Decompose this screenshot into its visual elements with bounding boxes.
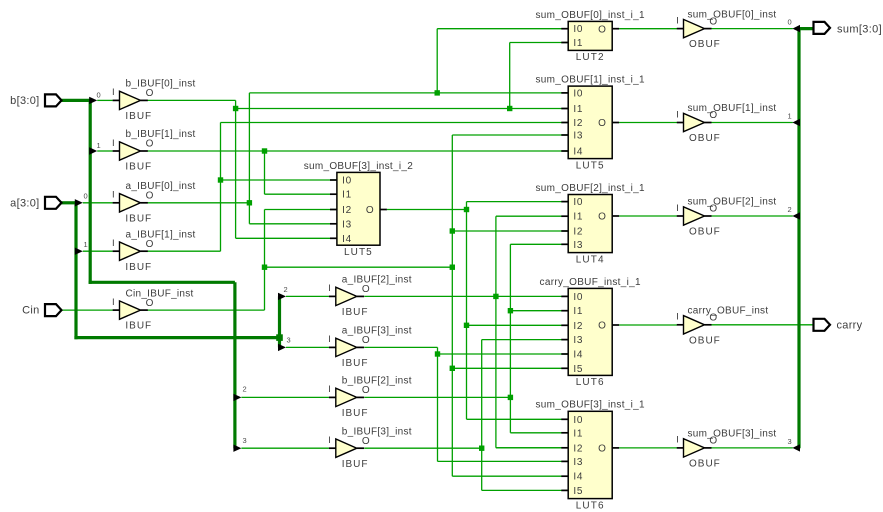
- svg-text:I: I: [676, 15, 679, 26]
- OBUF sum_OBUF[3]_inst: [676, 429, 776, 470]
- wire LUT5 output to sum_OBUF[1]: [619, 122, 677, 124]
- buffer sum_OBUF[1]_inst (OBUF): [677, 122, 684, 124]
- svg-text:2: 2: [284, 285, 288, 294]
- OBUF sum_OBUF[1]_inst: [676, 103, 776, 144]
- svg-text:3: 3: [243, 436, 247, 445]
- junction Cin at channel riser: [450, 265, 455, 270]
- svg-text:LUT6: LUT6: [576, 377, 605, 388]
- LUT sum_OBUF[3]_inst_i_2 (LUT5): [330, 179, 337, 181]
- svg-text:I3: I3: [573, 457, 583, 468]
- svg-text:I0: I0: [573, 197, 583, 208]
- svg-text:I0: I0: [573, 415, 583, 426]
- junction Cin at carry LUT I5 branch: [450, 366, 455, 371]
- svg-text:I0: I0: [342, 176, 352, 187]
- svg-text:a_IBUF[1]_inst: a_IBUF[1]_inst: [126, 229, 196, 240]
- svg-text:IBUF: IBUF: [125, 262, 152, 273]
- svg-text:I4: I4: [342, 234, 352, 245]
- LUT sum_OBUF[1]_inst_i_1 (LUT5): [561, 92, 568, 94]
- svg-text:I: I: [112, 238, 115, 249]
- buffer b_IBUF[0]_inst (IBUF): [113, 99, 120, 101]
- wire LUT2 output to sum_OBUF[0]: [619, 28, 677, 30]
- svg-text:I2: I2: [573, 118, 583, 129]
- svg-text:OBUF: OBUF: [689, 459, 721, 470]
- svg-text:O: O: [146, 139, 154, 150]
- svg-text:b[3:0]: b[3:0]: [10, 95, 39, 107]
- OBUF sum_OBUF[2]_inst: [676, 197, 776, 238]
- svg-text:I2: I2: [573, 443, 583, 454]
- svg-text:I: I: [112, 87, 115, 98]
- wire net Cin_IBUF output: [147, 135, 568, 476]
- svg-text:I1: I1: [573, 38, 583, 49]
- wire LUT4 output to sum_OBUF[2]: [619, 215, 677, 217]
- buffer b_IBUF[2]_inst (IBUF): [329, 396, 336, 398]
- input port Cin: [22, 304, 61, 317]
- wire net b_IBUF[1] output: [147, 151, 568, 194]
- buffer a_IBUF[0]_inst (IBUF): [113, 202, 120, 204]
- wire sum_OBUF[3] output to bus: [712, 447, 793, 449]
- svg-text:IBUF: IBUF: [125, 111, 152, 122]
- wire carry_OBUF output to carry port: [712, 324, 814, 326]
- wire a[3] to a_IBUF[3] input: [286, 346, 329, 348]
- svg-text:O: O: [366, 205, 374, 216]
- svg-text:I: I: [676, 312, 679, 323]
- bus tap a[2]: [278, 285, 288, 300]
- junction Cin at vertical riser: [262, 265, 267, 270]
- svg-text:OBUF: OBUF: [689, 133, 721, 144]
- wire net a_IBUF[0] output: [147, 29, 568, 224]
- junction a_IBUF[0] at LUT2 branch: [435, 90, 440, 95]
- wire a[1] to a_IBUF[1] input: [83, 250, 113, 252]
- wire net a_IBUF[1] output: [147, 123, 568, 252]
- junction a-bus split: [276, 334, 283, 341]
- buffer a_IBUF[2]_inst (IBUF): [329, 295, 336, 297]
- bus tap a[0]: [75, 191, 88, 206]
- svg-text:Cin_IBUF_inst: Cin_IBUF_inst: [126, 288, 194, 299]
- svg-text:LUT6: LUT6: [576, 500, 605, 511]
- svg-text:I2: I2: [573, 321, 583, 332]
- buffer a_IBUF[3]_inst (IBUF): [329, 346, 336, 348]
- wire net a_IBUF[2] output: [364, 216, 568, 448]
- svg-text:O: O: [146, 239, 154, 250]
- svg-text:I2: I2: [342, 205, 352, 216]
- svg-text:O: O: [146, 191, 154, 202]
- svg-text:I: I: [676, 203, 679, 214]
- svg-text:IBUF: IBUF: [342, 408, 369, 419]
- input port a[3:0]: [10, 197, 61, 210]
- svg-text:I0: I0: [573, 88, 583, 99]
- svg-text:I3: I3: [573, 131, 583, 142]
- svg-text:sum_OBUF[0]_inst_i_1: sum_OBUF[0]_inst_i_1: [536, 10, 646, 21]
- svg-text:b_IBUF[1]_inst: b_IBUF[1]_inst: [126, 129, 196, 140]
- wire b[0] to b_IBUF[0] input: [97, 99, 112, 101]
- svg-text:I: I: [328, 283, 331, 294]
- svg-text:carry_OBUF_inst: carry_OBUF_inst: [688, 306, 769, 317]
- junction a_IBUF[3] at carry LUT I4 branch: [435, 351, 440, 356]
- bus sum[3:0] trunk wire: [797, 29, 813, 449]
- wire sum_OBUF[0] output to bus: [712, 28, 793, 30]
- LUT sum_OBUF[3]_inst_i_1 (LUT6): [536, 400, 646, 512]
- LUT carry_OBUF_inst_i_1 (LUT6): [561, 295, 568, 297]
- wire net b_IBUF[3] output: [364, 340, 568, 491]
- IBUF b_IBUF[2]_inst: [328, 376, 412, 419]
- svg-text:I5: I5: [573, 486, 583, 497]
- svg-text:sum_OBUF[2]_inst: sum_OBUF[2]_inst: [688, 197, 777, 208]
- buffer sum_OBUF[2]_inst (OBUF): [677, 215, 684, 217]
- svg-text:I: I: [328, 384, 331, 395]
- svg-text:OBUF: OBUF: [689, 39, 721, 50]
- bus tap sum[3]: [788, 437, 800, 452]
- svg-text:I: I: [328, 435, 331, 446]
- svg-text:0: 0: [97, 91, 101, 100]
- junction b_IBUF[2] at riser: [508, 395, 513, 400]
- wire sum3 LUT output to sum_OBUF[3]: [619, 447, 677, 449]
- bus tap b[1]: [89, 141, 100, 155]
- svg-text:I1: I1: [342, 190, 352, 201]
- svg-text:O: O: [598, 24, 606, 35]
- buffer sum_OBUF[3]_inst (OBUF): [677, 447, 684, 449]
- svg-text:O: O: [146, 298, 154, 309]
- svg-text:a_IBUF[2]_inst: a_IBUF[2]_inst: [342, 275, 412, 286]
- wire b[2] to b_IBUF[2] input: [241, 396, 329, 398]
- input port b[3:0]: [10, 94, 61, 107]
- bus b[3:0] trunk wire: [61, 99, 235, 448]
- svg-text:O: O: [146, 88, 154, 99]
- output port carry: [814, 319, 863, 332]
- wire carry LUT output to carry_OBUF: [619, 324, 677, 326]
- wire net b_IBUF[0] output: [147, 43, 568, 239]
- svg-text:I1: I1: [573, 306, 583, 317]
- svg-text:carry: carry: [837, 320, 863, 332]
- LUT carry_OBUF_inst_i_1 (LUT6): [540, 277, 641, 388]
- svg-text:I: I: [112, 297, 115, 308]
- junction LUT5 mid output: [464, 207, 469, 212]
- buffer a_IBUF[1]_inst (IBUF): [113, 250, 120, 252]
- junction a_IBUF[2] at channel riser: [493, 294, 498, 299]
- svg-text:I5: I5: [573, 364, 583, 375]
- IBUF b_IBUF[1]_inst: [112, 129, 196, 172]
- IBUF a_IBUF[2]_inst: [328, 275, 412, 318]
- buffer carry_OBUF_inst (OBUF): [677, 324, 684, 326]
- svg-text:LUT4: LUT4: [576, 254, 605, 265]
- svg-text:O: O: [598, 212, 606, 223]
- svg-text:O: O: [598, 321, 606, 332]
- bus tap b[0]: [89, 91, 100, 105]
- buffer b_IBUF[1]_inst (IBUF): [113, 150, 120, 152]
- OBUF sum_OBUF[0]_inst: [676, 9, 776, 50]
- svg-text:sum_OBUF[1]_inst_i_1: sum_OBUF[1]_inst_i_1: [536, 75, 646, 86]
- svg-text:IBUF: IBUF: [125, 213, 152, 224]
- svg-text:sum_OBUF[3]_inst_i_1: sum_OBUF[3]_inst_i_1: [536, 400, 646, 411]
- svg-text:1: 1: [84, 240, 88, 249]
- svg-text:1: 1: [788, 111, 792, 120]
- svg-text:carry_OBUF_inst_i_1: carry_OBUF_inst_i_1: [540, 277, 641, 288]
- svg-text:I4: I4: [573, 350, 583, 361]
- svg-text:I: I: [112, 138, 115, 149]
- wire net sum_OBUF[3]_inst_i_2 output: [387, 202, 568, 420]
- svg-text:a[3:0]: a[3:0]: [10, 198, 39, 210]
- OBUF carry_OBUF_inst: [676, 306, 768, 347]
- svg-text:I0: I0: [573, 292, 583, 303]
- wire b[3] to b_IBUF[3] input: [241, 447, 329, 449]
- IBUF b_IBUF[3]_inst: [328, 426, 412, 469]
- wire a[2] to a_IBUF[2] input: [286, 295, 329, 297]
- svg-text:LUT5: LUT5: [576, 160, 605, 171]
- svg-text:LUT2: LUT2: [576, 52, 605, 63]
- output port sum[3:0]: [814, 22, 883, 36]
- svg-text:b_IBUF[0]_inst: b_IBUF[0]_inst: [126, 79, 196, 90]
- junction a_IBUF[0] output tap: [247, 200, 252, 205]
- junction b_IBUF[2] at carry LUT I1 branch: [508, 308, 513, 313]
- buffer sum_OBUF[0]_inst (OBUF): [677, 28, 684, 30]
- junction at carry LUT I2 branch: [464, 323, 469, 328]
- svg-text:OBUF: OBUF: [689, 227, 721, 238]
- wire sum_OBUF[2] output to bus: [712, 215, 793, 217]
- wire Cin port to Cin_IBUF input: [61, 309, 113, 311]
- svg-text:I: I: [676, 109, 679, 120]
- svg-text:O: O: [362, 436, 370, 447]
- buffer Cin_IBUF_inst (IBUF): [113, 309, 120, 311]
- svg-text:LUT5: LUT5: [344, 247, 373, 258]
- svg-text:0: 0: [84, 191, 88, 200]
- svg-text:IBUF: IBUF: [342, 307, 369, 318]
- svg-text:I: I: [676, 435, 679, 446]
- bus tap sum[1]: [788, 111, 800, 126]
- junction b_IBUF[0] at LUT2 branch: [507, 106, 512, 111]
- junction Cin at LUT4 I2 branch: [450, 228, 455, 233]
- svg-text:I3: I3: [573, 240, 583, 251]
- svg-text:IBUF: IBUF: [125, 321, 152, 332]
- svg-text:I3: I3: [342, 219, 352, 230]
- buffer b_IBUF[3]_inst (IBUF): [329, 447, 336, 449]
- svg-text:OBUF: OBUF: [689, 335, 721, 346]
- svg-text:2: 2: [788, 205, 792, 214]
- svg-text:I2: I2: [573, 227, 583, 238]
- svg-text:I1: I1: [573, 212, 583, 223]
- svg-text:2: 2: [243, 385, 247, 394]
- svg-text:I4: I4: [573, 472, 583, 483]
- svg-text:IBUF: IBUF: [342, 358, 369, 369]
- svg-text:O: O: [598, 444, 606, 455]
- svg-text:I: I: [112, 190, 115, 201]
- svg-text:1: 1: [97, 141, 101, 150]
- IBUF a_IBUF[3]_inst: [328, 326, 412, 369]
- svg-text:3: 3: [287, 336, 291, 345]
- svg-text:Cin: Cin: [22, 305, 39, 317]
- wire sum_OBUF[1] output to bus: [712, 122, 793, 124]
- IBUF b_IBUF[0]_inst: [112, 79, 196, 122]
- junction b_IBUF[3] at riser: [479, 446, 484, 451]
- svg-text:O: O: [362, 284, 370, 295]
- svg-text:b_IBUF[3]_inst: b_IBUF[3]_inst: [342, 426, 412, 437]
- svg-text:IBUF: IBUF: [342, 459, 369, 470]
- junction a_IBUF[1] at LUT5 I0 branch: [218, 177, 223, 182]
- LUT sum_OBUF[0]_inst_i_1 (LUT2): [561, 28, 568, 30]
- wire net b_IBUF[2] output: [364, 244, 568, 432]
- bus tap b[3]: [233, 436, 246, 452]
- svg-text:I4: I4: [573, 147, 583, 158]
- svg-text:sum_OBUF[3]_inst: sum_OBUF[3]_inst: [688, 429, 777, 440]
- bus tap sum[2]: [788, 205, 800, 220]
- IBUF a_IBUF[1]_inst: [112, 229, 196, 272]
- wire net a_IBUF[3] output: [364, 347, 568, 461]
- junction b_IBUF[0] at horizontal feed: [233, 106, 238, 111]
- svg-text:sum[3:0]: sum[3:0]: [837, 24, 882, 36]
- LUT sum_OBUF[3]_inst_i_2 (LUT5 mid): [304, 161, 414, 258]
- IBUF Cin_IBUF_inst: [112, 288, 194, 331]
- svg-text:0: 0: [788, 17, 792, 26]
- wire a[0] to a_IBUF[0] input: [83, 202, 113, 204]
- svg-text:3: 3: [788, 437, 792, 446]
- bus tap sum[0]: [788, 17, 800, 32]
- wire b[1] to b_IBUF[1] input: [97, 150, 112, 152]
- svg-text:IBUF: IBUF: [125, 162, 152, 173]
- svg-text:I: I: [328, 334, 331, 345]
- bus tap a[3]: [278, 336, 291, 352]
- svg-text:b_IBUF[2]_inst: b_IBUF[2]_inst: [342, 376, 412, 387]
- svg-text:O: O: [362, 385, 370, 396]
- svg-text:sum_OBUF[2]_inst_i_1: sum_OBUF[2]_inst_i_1: [536, 183, 646, 194]
- LUT sum_OBUF[3]_inst_i_1 (LUT6): [561, 418, 568, 420]
- svg-text:I0: I0: [573, 24, 583, 35]
- svg-text:sum_OBUF[1]_inst: sum_OBUF[1]_inst: [688, 103, 777, 114]
- junction b_IBUF[1] branch: [262, 148, 267, 153]
- svg-text:sum_OBUF[0]_inst: sum_OBUF[0]_inst: [688, 9, 777, 20]
- svg-text:I1: I1: [573, 428, 583, 439]
- bus tap a[1]: [75, 240, 88, 255]
- svg-text:a_IBUF[3]_inst: a_IBUF[3]_inst: [342, 326, 412, 337]
- LUT sum_OBUF[1]_inst_i_1 (LUT5): [536, 75, 646, 172]
- LUT sum_OBUF[2]_inst_i_1 (LUT4): [536, 183, 646, 265]
- svg-text:O: O: [362, 335, 370, 346]
- LUT sum_OBUF[2]_inst_i_1 (LUT4): [561, 201, 568, 203]
- bus tap b[2]: [233, 385, 246, 402]
- bus a[3:0] trunk wire: [61, 201, 280, 347]
- svg-text:O: O: [598, 118, 606, 129]
- IBUF a_IBUF[0]_inst: [112, 181, 196, 224]
- LUT sum_OBUF[0]_inst_i_1 (LUT2): [536, 10, 646, 63]
- svg-text:a_IBUF[0]_inst: a_IBUF[0]_inst: [126, 181, 196, 192]
- svg-text:I3: I3: [573, 335, 583, 346]
- svg-text:I1: I1: [573, 104, 583, 115]
- svg-text:sum_OBUF[3]_inst_i_2: sum_OBUF[3]_inst_i_2: [304, 161, 414, 172]
